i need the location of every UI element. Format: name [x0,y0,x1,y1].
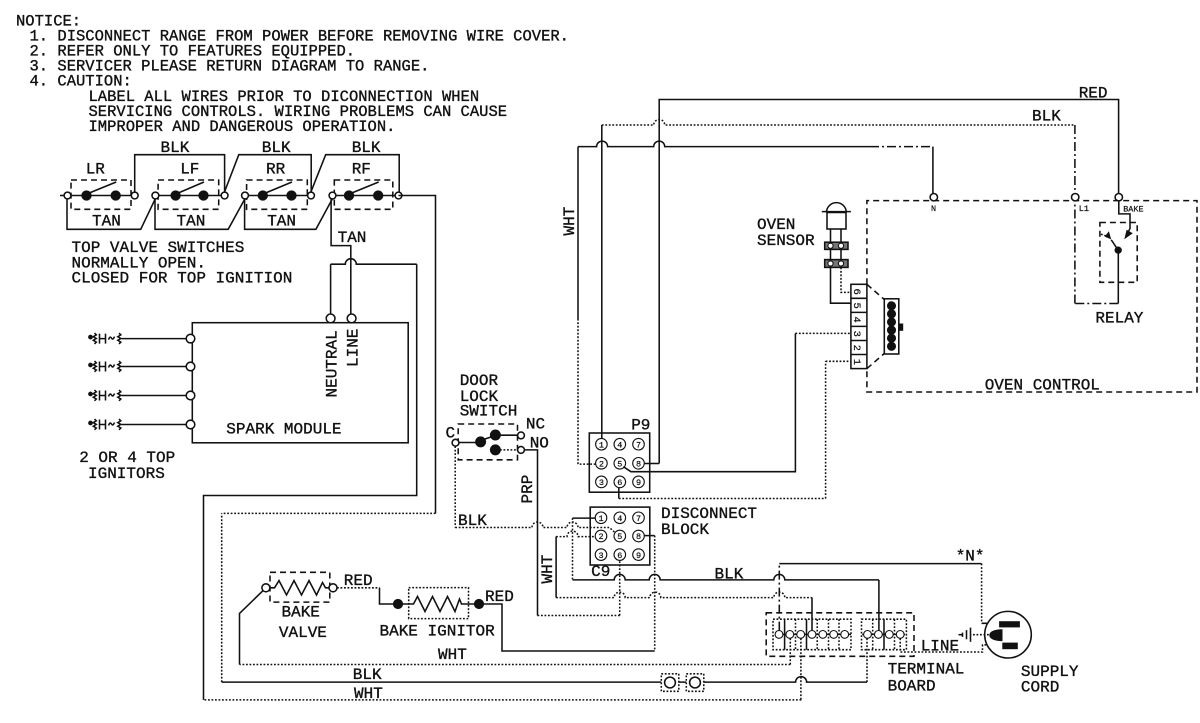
svg-text:OVEN CONTROL: OVEN CONTROL [985,377,1100,395]
text OVEN SENSOR [757,216,815,250]
svg-text:6: 6 [617,478,622,488]
wire P9 pin2 to N (WHT) [578,320,596,464]
svg-text:IMPROPER AND DANGEROUS OPERATI: IMPROPER AND DANGEROUS OPERATION. [89,118,396,136]
svg-text:BAKE: BAKE [1123,205,1143,215]
svg-text:SWITCH: SWITCH [460,403,518,421]
svg-text:CLOSED FOR TOP IGNITION: CLOSED FOR TOP IGNITION [72,270,293,288]
P9 pin 2 [596,458,608,470]
svg-text:6: 6 [850,288,862,294]
oven sensor bulb [822,203,851,243]
wire P9 pin6 down to oven control pin1 [618,488,620,499]
spark module box [192,323,408,443]
wire C to common contact [459,442,477,444]
svg-text:8: 8 [636,460,641,470]
relay switch arm [1111,240,1117,248]
svg-text:SENSOR: SENSOR [757,232,815,250]
svg-text:LINE: LINE [921,638,959,656]
P9 pin 7 [633,438,645,450]
svg-text:NEUTRAL: NEUTRAL [324,330,342,397]
svg-text:4: 4 [617,440,622,450]
svg-text:WHT: WHT [561,207,579,236]
svg-text:TAN: TAN [177,213,206,231]
svg-text:P9: P9 [631,417,650,435]
label TERMINAL BOARD [888,660,965,695]
P9 pin 8 [633,458,645,470]
svg-text:C9: C9 [591,563,610,581]
svg-text:3: 3 [599,478,604,488]
oven control pin strip [850,284,867,368]
wire sensor to oven control pin6 [841,267,851,292]
svg-text:BAKE IGNITOR: BAKE IGNITOR [380,623,496,641]
svg-text:VALVE: VALVE [279,624,327,642]
wire BLK bracket RR-RF [311,155,399,192]
text TOP VALVE SWITCHES note [72,239,293,288]
splice dot [475,600,484,609]
dashed leader lines to connector [867,284,884,299]
terminal N [930,194,937,201]
P9 pin 5 [614,458,626,470]
P9 pin 3 [596,476,608,488]
svg-text:4: 4 [617,514,622,524]
svg-text:RR: RR [266,161,286,179]
wire bake valve to bake ignitor [337,587,380,589]
P9 pin 9 [633,476,645,488]
wire RF right to BLK vertical down [399,196,436,514]
top valve switch RF [329,161,402,210]
black multi-pin connector [884,299,903,354]
svg-text:4: 4 [850,317,862,323]
svg-text:7: 7 [636,514,641,524]
svg-text:5: 5 [617,460,622,470]
disconnect pin 9 [633,549,645,561]
terminal board left block [773,619,851,650]
disconnect pin 7 [633,512,645,524]
chassis connector squares on BLK line [661,674,679,692]
svg-text:1: 1 [599,440,604,450]
terminal board right block [862,619,907,650]
sensor connector block 1 [825,242,848,249]
supply cord plug [985,611,1032,658]
terminal BAKE [1115,194,1122,201]
svg-text:TERMINAL: TERMINAL [888,660,965,678]
bake valve terminals [262,584,270,592]
svg-text:1: 1 [598,514,603,524]
connector P9 box [589,433,649,492]
switch arm [484,437,493,440]
disconnect pin 3 [595,549,607,561]
svg-text:LINE: LINE [345,329,363,367]
disconnect pin 5 [614,530,626,542]
wire terminal1 right block down to BLK bottom line [866,638,868,682]
svg-text:TAN: TAN [267,213,296,231]
disconnect pin 8 [633,530,645,542]
wire TAN bracket LF-RR [155,199,245,229]
wire BAKE to relay NO contact [1119,201,1130,234]
svg-text:BLK: BLK [352,139,381,157]
svg-text:BLK: BLK [353,666,382,684]
wire terminal3 left block down to WHT bottom line [800,638,802,700]
svg-text:CORD: CORD [1021,679,1059,697]
wire disconnect pin2 to terminal board (WHT) [556,531,595,537]
contact dot NO [491,445,500,454]
svg-text:BLOCK: BLOCK [661,521,709,539]
svg-text:BLK: BLK [262,139,291,157]
wire WHT bottom corner to disconnect pin6 [538,615,620,617]
top valve switch LR [64,161,138,210]
svg-text:2: 2 [850,345,862,351]
wire terminal2 left block down to WHT line to bake valve [789,638,791,664]
svg-text:BAKE: BAKE [282,604,320,622]
P9 pin 4 [614,438,626,450]
wire BLK bracket LF-RR [225,155,312,192]
text DOOR LOCK SWITCH [460,372,518,421]
terminal LINE circle [347,314,356,323]
disconnect block box [590,507,650,565]
svg-text:2: 2 [599,460,604,470]
label BAKE VALVE [279,604,327,643]
svg-text:BLK: BLK [458,512,487,530]
svg-text:5: 5 [850,302,862,308]
splice dot [394,600,403,609]
svg-text:TAN: TAN [338,229,367,247]
svg-text:RED: RED [485,588,514,606]
svg-text:SPARK MODULE: SPARK MODULE [226,421,341,439]
svg-text:BLK: BLK [161,139,190,157]
contact dot common [476,437,485,446]
top valve switch LF [152,161,228,210]
wire BLK bracket LR-LF [135,155,225,192]
ignitor 3 [89,390,195,401]
ignitor 1 [89,333,195,344]
terminal NO [518,447,525,454]
svg-text:8: 8 [636,532,641,542]
svg-text:3: 3 [850,331,862,337]
terminal NEUTRAL circle [326,314,335,323]
sensor connector block 2 [825,260,848,268]
wire disconnect pin8 to bake ignitor [644,535,654,537]
svg-text:L1: L1 [1079,204,1089,214]
svg-text:RF: RF [352,161,371,179]
svg-text:9: 9 [636,551,641,561]
svg-text:BLK: BLK [715,565,744,583]
terminal board dashed box [766,613,914,657]
svg-text:PRP: PRP [519,475,537,504]
svg-text:WHT: WHT [539,555,557,584]
bake valve box [270,572,330,602]
wire P9 pin8 up to BAKE (RED) [645,463,660,465]
door lock switch box [458,424,517,460]
relay NC contact arrow [1105,231,1112,239]
wire NEUTRAL up/over to right vertical [330,264,332,314]
label DISCONNECT BLOCK [661,505,757,539]
text 2 OR 4 TOP IGNITORS [79,449,175,483]
svg-text:LR: LR [86,161,106,179]
ignitor 4 [89,419,195,430]
svg-text:5: 5 [617,532,622,542]
wire P9 pin1 up to L1 (BLK) [601,125,603,438]
svg-text:6: 6 [617,551,622,561]
svg-text:LF: LF [180,161,199,179]
terminal C [452,439,459,446]
wire LINE from terminal4 right block to supply cord [900,638,1002,652]
oven control dashed box [867,201,1197,392]
svg-text:WHT: WHT [354,685,383,703]
svg-text:BOARD: BOARD [888,678,936,696]
wire to NO terminal [500,449,518,451]
wire BLK from C down to disconnect pin5 [454,446,456,527]
svg-text:2: 2 [598,532,603,542]
svg-text:RED: RED [1079,85,1108,103]
wire TAN bracket LR-LF [67,199,155,229]
svg-text:N: N [931,204,936,214]
svg-text:NC: NC [526,416,545,434]
disconnect pin 4 [614,512,626,524]
top valve switch RR [242,161,315,210]
svg-text:RELAY: RELAY [1095,310,1143,328]
wire neutral vertical down right of spark module [204,264,417,700]
relay dashed box [1100,223,1137,283]
svg-text:7: 7 [636,440,641,450]
svg-text:TAN: TAN [92,213,121,231]
svg-text:1: 1 [850,359,862,365]
P9 pin 6 [614,476,626,488]
terminal L1 [1072,194,1079,201]
bake valve resistor zigzag [270,581,329,595]
wire relay common down to L1 [1117,253,1119,303]
wire sensor to oven control pin5 [831,267,851,303]
wire TAN from RF to spark module LINE terminal [331,199,351,314]
svg-text:WHT: WHT [438,646,467,664]
notice text block [16,13,569,137]
disconnect pin 1 [595,512,607,524]
label SUPPLY CORD [1021,663,1079,697]
wire P9 pin5 right and up to oven control pin3 [623,333,795,471]
svg-text:BLK: BLK [1032,108,1061,126]
sensor leads [831,249,842,259]
wire stub left of LR [60,195,64,197]
svg-text:9: 9 [636,478,641,488]
wire disconnect pin1 to BLK line to terminal board [573,517,596,519]
wire TAN bracket RR-RF [245,199,333,229]
disconnect pin 2 [595,530,607,542]
bake ignitor resistor [402,597,474,612]
wire PRP/WHT from NO down [524,450,537,616]
svg-text:*N*: *N* [956,547,985,565]
ground symbol [959,628,989,642]
svg-text:IGNITORS: IGNITORS [88,465,165,483]
wire to NC terminal [500,434,518,436]
contact dot NC [491,430,500,439]
bake ignitor box [409,588,469,619]
terminal NC [518,432,525,439]
disconnect pin 6 [614,549,626,561]
svg-text:3: 3 [598,551,603,561]
wire *N* from terminal1 left block to supply cord [778,564,780,631]
P9 pin 1 [596,438,608,450]
ignitor 2 [89,361,195,372]
relay common contact [1115,247,1121,253]
